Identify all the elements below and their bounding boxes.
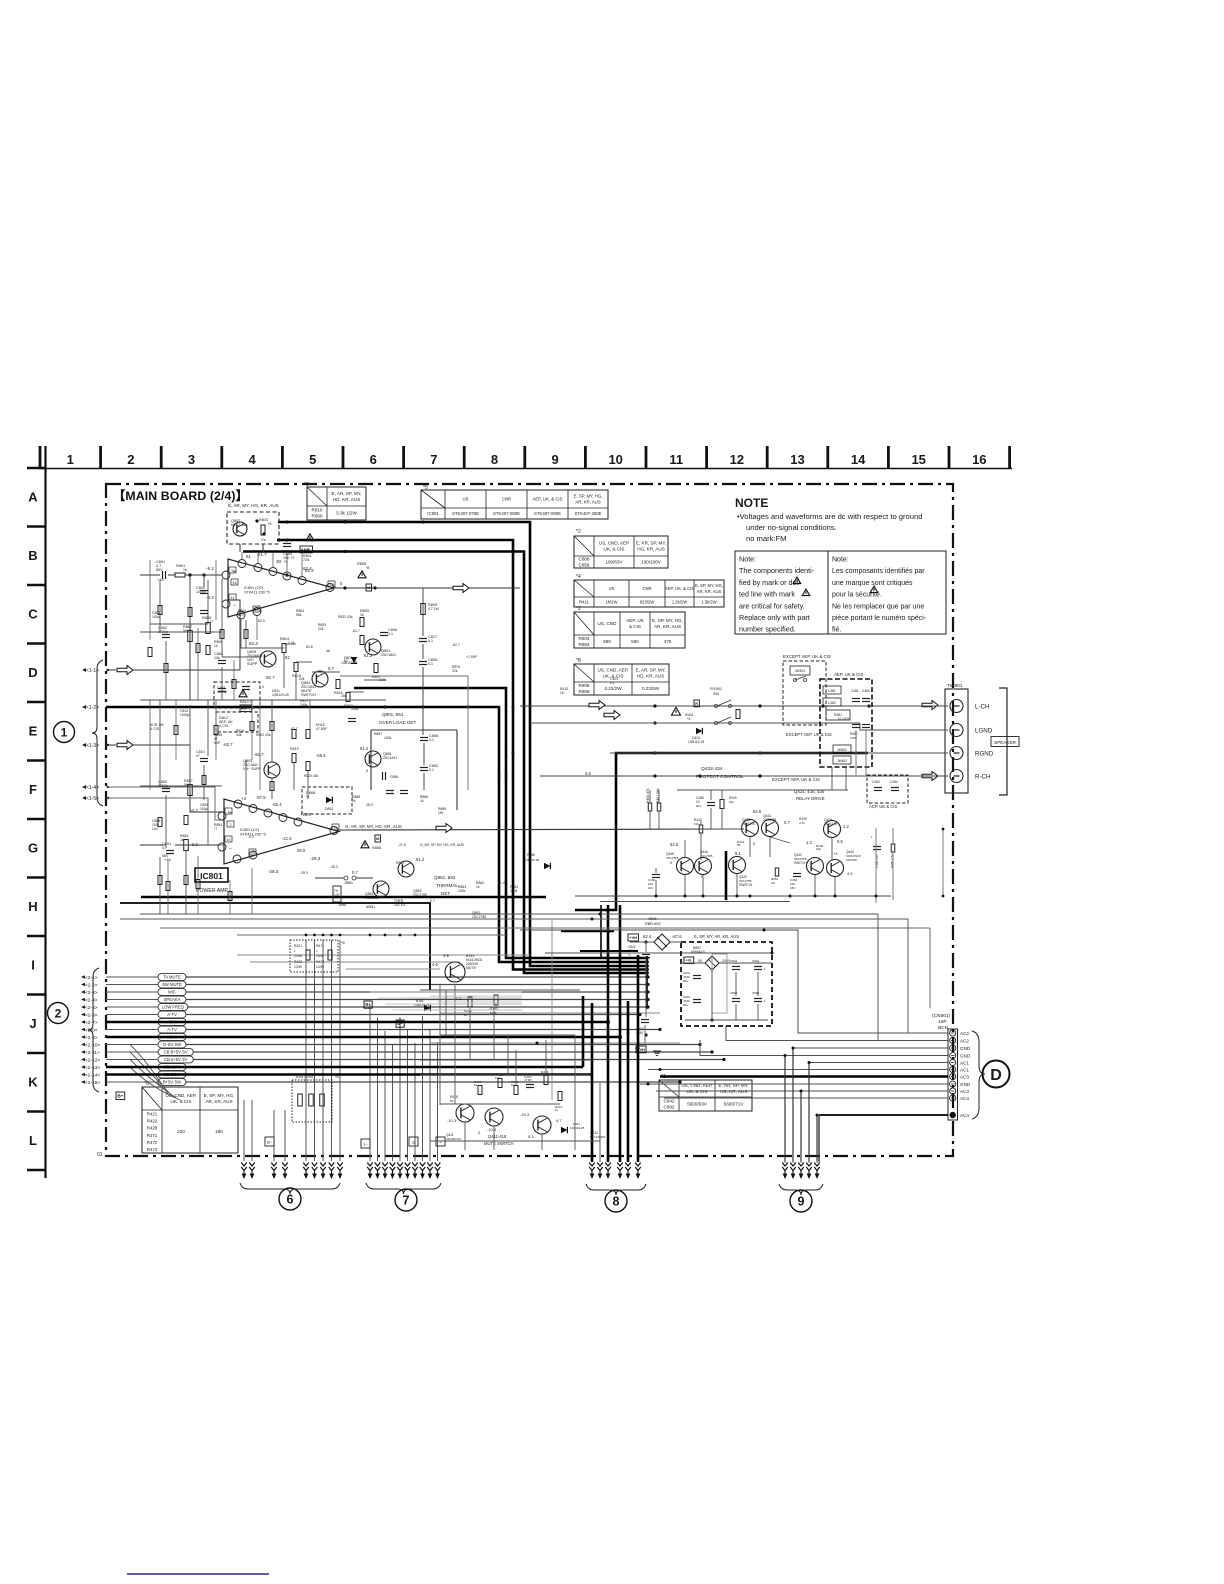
svg-text:AEP, UK, & CIS: AEP, UK, & CIS — [665, 586, 694, 591]
svg-text:2SC2785: 2SC2785 — [666, 856, 679, 860]
svg-text:*7: *7 — [210, 620, 213, 624]
svg-text:E, SP, MY, HG,: E, SP, MY, HG, — [574, 494, 603, 499]
svg-text:4B01: 4B01 — [648, 917, 657, 921]
svg-text:R-CH: R-CH — [975, 773, 990, 780]
svg-text:-21.5: -21.5 — [282, 836, 292, 841]
svg-text:R858: R858 — [527, 853, 535, 857]
svg-text:AMPL: AMPL — [241, 707, 252, 711]
svg-text:823/2W: 823/2W — [640, 599, 654, 604]
svg-text:GND: GND — [960, 1046, 971, 1051]
svg-text:L481: L481 — [828, 689, 836, 693]
svg-text:1k: 1k — [352, 799, 356, 803]
svg-text:Vs: Vs — [261, 537, 266, 542]
svg-text:EXCEPT AEP, UK & CIS: EXCEPT AEP, UK & CIS — [786, 732, 832, 737]
svg-text:100/63V: 100/63V — [605, 560, 623, 565]
svg-text:-0.2: -0.2 — [190, 808, 198, 813]
svg-text:10: 10 — [608, 452, 622, 467]
svg-text:2SC1841: 2SC1841 — [381, 653, 396, 657]
svg-text:O-SV SW: O-SV SW — [163, 1042, 181, 1047]
svg-text:& CIS: & CIS — [629, 624, 641, 629]
svg-text:-29.9: -29.9 — [721, 959, 730, 963]
svg-text:<2-10>: <2-10> — [85, 1043, 100, 1049]
svg-text:+: + — [229, 811, 232, 817]
svg-text:fié.: fié. — [832, 627, 841, 634]
svg-text:NOTE: NOTE — [735, 496, 768, 510]
svg-text:IC801: IC801 — [427, 511, 439, 516]
svg-text:100: 100 — [283, 556, 289, 560]
svg-text:59: 59 — [737, 843, 741, 847]
svg-text:STK407-250E: STK407-250E — [575, 511, 602, 516]
svg-text:Q432-434: Q432-434 — [701, 766, 723, 772]
svg-text:OVER LOAD DET: OVER LOAD DET — [379, 720, 416, 725]
svg-text:<2-3>: <2-3> — [85, 990, 98, 996]
svg-text:C844: C844 — [752, 959, 760, 963]
svg-text:*1: *1 — [636, 1035, 639, 1039]
svg-text:R808: R808 — [579, 683, 590, 688]
svg-text:A: A — [28, 490, 38, 505]
svg-text:AC2: AC2 — [960, 1031, 969, 1036]
svg-text:47: 47 — [196, 754, 200, 758]
svg-text:2SA1175: 2SA1175 — [824, 822, 837, 826]
svg-text:2.5: 2.5 — [455, 996, 461, 1001]
svg-text:62.3: 62.3 — [249, 641, 258, 646]
svg-text:14: 14 — [333, 825, 338, 830]
svg-text:62: 62 — [285, 655, 290, 660]
svg-text:12: 12 — [329, 582, 334, 587]
svg-text:Ne les remplacer que par une: Ne les remplacer que par une — [832, 603, 924, 610]
svg-text:D851: D851 — [325, 807, 333, 811]
svg-text:HG, KR, AUS: HG, KR, AUS — [720, 1089, 748, 1094]
svg-text:10: 10 — [226, 837, 231, 842]
svg-text:0.22/5W: 0.22/5W — [642, 686, 660, 691]
svg-text:726: 726 — [303, 558, 309, 562]
svg-text:16: 16 — [232, 580, 237, 585]
svg-text:【MAIN BOARD (2/4)】: 【MAIN BOARD (2/4)】 — [113, 488, 248, 503]
svg-text:E: E — [29, 724, 38, 739]
svg-text:13: 13 — [254, 607, 259, 612]
svg-text:100k: 100k — [458, 889, 466, 893]
svg-text:<2-7>: <2-7> — [85, 1020, 98, 1026]
svg-text:HG, KR, AUS: HG, KR, AUS — [333, 497, 361, 502]
svg-text:E, AR, SP, MY,: E, AR, SP, MY, — [636, 668, 666, 673]
svg-text:1: 1 — [61, 725, 68, 739]
svg-text:R453 47k: R453 47k — [646, 788, 650, 803]
svg-text:TW801: TW801 — [947, 683, 963, 689]
svg-text:0: 0 — [478, 1131, 480, 1135]
svg-text:1W: 1W — [438, 811, 444, 815]
svg-text:4A: 4A — [326, 649, 331, 653]
svg-text:1/2W: 1/2W — [316, 965, 325, 969]
svg-text:R421: R421 — [294, 944, 302, 948]
svg-text:4: 4 — [248, 452, 256, 467]
svg-text:R822 43k: R822 43k — [256, 733, 271, 737]
svg-text:JW81: JW81 — [344, 881, 353, 885]
svg-text:B+5V SW: B+5V SW — [163, 1079, 181, 1084]
svg-text:1/2W: 1/2W — [294, 954, 303, 958]
svg-text:R472: R472 — [147, 1140, 158, 1145]
svg-text:*2: *2 — [291, 556, 294, 560]
svg-text:-10.3: -10.3 — [487, 1127, 497, 1132]
svg-text:5600/71V: 5600/71V — [724, 1102, 745, 1107]
svg-text:R421: R421 — [147, 1112, 158, 1117]
svg-text:E, AR, MY, HG, KR, AUS: E, AR, MY, HG, KR, AUS — [228, 503, 279, 508]
svg-text:2SC2785: 2SC2785 — [700, 854, 713, 858]
svg-text:B: B — [28, 548, 37, 563]
svg-text:JW81: JW81 — [338, 903, 347, 907]
svg-text:R813: R813 — [240, 700, 249, 704]
svg-text:AW81: AW81 — [366, 905, 375, 909]
svg-text:US, CND: US, CND — [598, 621, 618, 626]
svg-text:<2-12>: <2-12> — [85, 1058, 100, 1064]
svg-text:102 1Ω: 102 1Ω — [394, 903, 405, 907]
svg-text:AC4: AC4 — [960, 1096, 969, 1101]
svg-text:MIC: MIC — [168, 989, 176, 994]
svg-text:CNR: CNR — [502, 497, 511, 502]
svg-text:THERMAL: THERMAL — [436, 883, 458, 888]
svg-text:GND: GND — [960, 1082, 971, 1087]
svg-text:*2: *2 — [576, 606, 581, 612]
svg-text:2SC2785: 2SC2785 — [763, 818, 777, 822]
svg-text:2SC56C5A: 2SC56C5A — [446, 1137, 461, 1141]
svg-text:NTE2-15A: NTE2-15A — [231, 523, 248, 527]
svg-text:MUTE: MUTE — [466, 966, 477, 970]
svg-text:102: 102 — [334, 893, 340, 897]
svg-text:22k: 22k — [452, 669, 458, 673]
svg-text:0.22/2W: 0.22/2W — [604, 686, 622, 691]
svg-text:13: 13 — [790, 452, 804, 467]
svg-text:21.7: 21.7 — [258, 552, 267, 557]
svg-text:0.1: 0.1 — [388, 632, 393, 636]
svg-text:<2-4>: <2-4> — [85, 998, 98, 1004]
svg-text:R: R — [695, 702, 698, 706]
svg-text:SUPP: SUPP — [247, 662, 258, 666]
svg-text:5600/63V: 5600/63V — [687, 1102, 708, 1107]
svg-text:US, CND, AEP: US, CND, AEP — [599, 541, 629, 546]
svg-text:6959A19: 6959A19 — [691, 950, 705, 954]
svg-text:JW401: JW401 — [795, 669, 806, 673]
svg-text:16: 16 — [972, 452, 986, 467]
svg-text:AC3: AC3 — [960, 1075, 969, 1080]
svg-text:CB B+5V SV: CB B+5V SV — [164, 1049, 188, 1054]
svg-text:-67.6: -67.6 — [672, 934, 682, 939]
svg-text:1SB119-25: 1SB119-25 — [688, 740, 704, 744]
svg-text:16V: 16V — [790, 886, 795, 890]
svg-text:LOW FREQ: LOW FREQ — [162, 1004, 185, 1009]
svg-text:HG, KR, AUS: HG, KR, AUS — [637, 547, 665, 552]
svg-text:E, SP, MY, AR, KR, AUS: E, SP, MY, AR, KR, AUS — [694, 934, 739, 939]
svg-text:R858: R858 — [579, 689, 590, 694]
svg-text:0.7: 0.7 — [430, 899, 435, 903]
svg-text:220: 220 — [177, 1129, 185, 1134]
svg-text:I: I — [31, 958, 35, 973]
svg-text:15: 15 — [911, 452, 925, 467]
svg-text:G, AR, SP, MY, HG, KR, AUS: G, AR, SP, MY, HG, KR, AUS — [345, 824, 402, 829]
svg-text:<2-14>: <2-14> — [85, 1073, 100, 1079]
svg-text:47 50P: 47 50P — [316, 727, 327, 731]
svg-text:STK411-230 *5: STK411-230 *5 — [244, 591, 270, 595]
svg-text:8: 8 — [613, 1195, 620, 1209]
svg-text:L-CH: L-CH — [975, 703, 989, 710]
svg-text:Q411-418: Q411-418 — [488, 1134, 507, 1139]
svg-text:1000p: 1000p — [180, 713, 190, 717]
svg-text:C483: C483 — [872, 780, 880, 784]
svg-text:4.7: 4.7 — [556, 1118, 562, 1123]
svg-text:AR, KR, AUS: AR, KR, AUS — [654, 624, 681, 629]
svg-text:−VH: −VH — [637, 1048, 645, 1052]
svg-text:C892: C892 — [664, 1105, 675, 1110]
svg-text:ACP, UK & CIS: ACP, UK & CIS — [869, 804, 898, 809]
svg-text:10k: 10k — [694, 822, 699, 826]
svg-text:+16: +16 — [157, 577, 165, 582]
svg-text:L: L — [29, 1133, 37, 1148]
svg-text:62.3: 62.3 — [258, 619, 265, 623]
svg-text:STK407-070E: STK407-070E — [452, 511, 479, 516]
svg-text:ted line with mark: ted line with mark — [739, 590, 795, 599]
svg-text:10k: 10k — [495, 1076, 500, 1080]
svg-text:4.5: 4.5 — [847, 871, 853, 876]
svg-text:Q851, 852: Q851, 852 — [434, 875, 456, 880]
svg-text:470: 470 — [664, 639, 672, 644]
svg-text:C859: C859 — [579, 563, 590, 568]
svg-text:L482: L482 — [828, 701, 836, 705]
svg-text:62.8: 62.8 — [306, 645, 313, 649]
svg-text:C842: C842 — [664, 1099, 675, 1104]
svg-text:RGND: RGND — [975, 750, 994, 757]
svg-text:100k: 100k — [384, 736, 392, 740]
svg-text:R411: R411 — [579, 599, 589, 604]
svg-text:R433 x 1/2W: R433 x 1/2W — [296, 1075, 314, 1079]
svg-text:EXCEPT AEP, UK & CIS: EXCEPT AEP, UK & CIS — [783, 654, 831, 659]
svg-text:K: K — [28, 1075, 38, 1090]
svg-text:9: 9 — [798, 1195, 805, 1209]
svg-text:C482: C482 — [862, 689, 870, 693]
svg-text:-55.4: -55.4 — [316, 753, 326, 758]
svg-text:5k: 5k — [450, 1099, 454, 1103]
svg-text:0.1: 0.1 — [429, 768, 434, 772]
svg-text:*4: *4 — [576, 574, 581, 580]
svg-text:1SB119-25: 1SB119-25 — [570, 1126, 585, 1130]
svg-text:G, AR, SP, MY, HG, KR, AUS: G, AR, SP, MY, HG, KR, AUS — [420, 843, 465, 847]
svg-text:RELAY DRIVE: RELAY DRIVE — [796, 796, 825, 801]
svg-text:-57.5: -57.5 — [256, 795, 266, 800]
svg-text:56k: 56k — [296, 613, 302, 617]
svg-text:01: 01 — [97, 1152, 103, 1158]
svg-text:4.7k: 4.7k — [799, 821, 805, 825]
svg-text:1.2: 1.2 — [843, 824, 849, 829]
svg-text:STK407-090E: STK407-090E — [534, 511, 561, 516]
svg-text:AC1: AC1 — [960, 1061, 969, 1066]
svg-text:STK407-050E: STK407-050E — [493, 511, 520, 516]
svg-text:R819: R819 — [290, 747, 299, 751]
svg-text:10k: 10k — [816, 847, 821, 851]
svg-text:1SB119-25: 1SB119-25 — [414, 1003, 430, 1007]
svg-text:0.1: 0.1 — [428, 662, 433, 666]
svg-text:<1-5>: <1-5> — [86, 796, 99, 802]
svg-text:0.8: 0.8 — [585, 771, 591, 776]
svg-text:2: 2 — [127, 452, 134, 467]
svg-text:1k: 1k — [476, 885, 480, 889]
svg-text:0.1: 0.1 — [428, 639, 433, 643]
svg-text:1.5k/2W: 1.5k/2W — [701, 599, 716, 604]
svg-text:61.2: 61.2 — [360, 746, 369, 751]
svg-text:A-TV: A-TV — [167, 1012, 177, 1017]
svg-text:-29.3: -29.3 — [310, 856, 321, 861]
svg-text:62.4: 62.4 — [643, 934, 652, 939]
svg-text:UK, & CIS: UK, & CIS — [687, 1089, 708, 1094]
svg-text:AR, KR, AUS: AR, KR, AUS — [205, 1099, 232, 1104]
svg-text:1k: 1k — [183, 568, 187, 572]
svg-text:(CN801): (CN801) — [932, 1013, 951, 1019]
svg-text:LGND: LGND — [975, 727, 993, 734]
svg-text:-19.3: -19.3 — [520, 1112, 530, 1117]
svg-text:0.6: 0.6 — [837, 839, 843, 844]
svg-text:2: 2 — [55, 1006, 62, 1020]
svg-text:UK, & CIS: UK, & CIS — [604, 547, 625, 552]
svg-text:10P: 10P — [938, 1019, 947, 1025]
svg-text:A-TV: A-TV — [167, 1027, 177, 1032]
svg-text:R422: R422 — [147, 1119, 158, 1124]
svg-text:30: 30 — [276, 559, 282, 564]
svg-text:E, SP, MY, HG,: E, SP, MY, HG, — [695, 583, 723, 588]
svg-text:<2-6>: <2-6> — [85, 1013, 98, 1019]
svg-text:22k: 22k — [729, 800, 734, 804]
svg-text:R471: R471 — [147, 1133, 158, 1138]
svg-text:PROTECT CONTROL: PROTECT CONTROL — [696, 774, 744, 780]
svg-text:*4: *4 — [687, 717, 690, 721]
svg-text:-0.2: -0.2 — [248, 835, 254, 839]
svg-text:CNR: CNR — [642, 586, 651, 591]
svg-text:& CIS: & CIS — [219, 724, 229, 728]
svg-text:*8: *8 — [576, 658, 581, 664]
svg-text:-29.3: -29.3 — [300, 871, 308, 875]
svg-text:47 8P: 47 8P — [524, 1078, 532, 1082]
svg-text:une marque sont critiques: une marque sont critiques — [832, 580, 913, 587]
svg-text:-9.2: -9.2 — [206, 566, 214, 571]
svg-text:R+: R+ — [365, 1002, 371, 1007]
svg-text:number specified.: number specified. — [739, 625, 796, 634]
svg-text:R860: R860 — [312, 514, 323, 519]
svg-text:MUTE SWITCH: MUTE SWITCH — [484, 1141, 514, 1146]
svg-text:AEP, UK, & CIS: AEP, UK, & CIS — [532, 497, 562, 502]
svg-text:5.3: 5.3 — [528, 1134, 534, 1139]
svg-text:*8: *8 — [366, 566, 369, 570]
svg-text:-29.3: -29.3 — [268, 869, 279, 874]
svg-text:J: J — [29, 1016, 36, 1031]
svg-text:JW403: JW403 — [837, 759, 847, 763]
svg-text:US, CND, AEP,: US, CND, AEP, — [597, 668, 628, 673]
svg-text:*8: *8 — [268, 522, 271, 526]
svg-text:12: 12 — [730, 452, 744, 467]
svg-text:F: F — [29, 782, 37, 797]
svg-text:4.7 1W: 4.7 1W — [428, 607, 440, 611]
svg-text:GND: GND — [960, 1054, 971, 1059]
svg-text:+3: +3 — [833, 852, 837, 856]
svg-text:under no-signal conditions.: under no-signal conditions. — [746, 523, 837, 532]
svg-text:−: − — [233, 603, 236, 609]
svg-text:-62.7: -62.7 — [452, 643, 460, 647]
svg-text:B1C1SM63: B1C1SM63 — [590, 1135, 606, 1139]
svg-text:R808: R808 — [357, 562, 366, 566]
svg-text:SWITCH: SWITCH — [301, 693, 316, 697]
svg-text:+: + — [233, 570, 236, 576]
svg-text:BCN: BCN — [938, 1025, 949, 1031]
svg-text:470: 470 — [238, 613, 244, 617]
svg-text:*2: *2 — [576, 529, 581, 535]
svg-text:DET: DET — [441, 891, 450, 896]
svg-text:The components identi-: The components identi- — [739, 566, 815, 575]
svg-text:•Voltages and waveforms are dc: •Voltages and waveforms are dc with resp… — [737, 512, 922, 521]
svg-text:8: 8 — [491, 452, 498, 467]
svg-text:G: G — [28, 841, 38, 856]
svg-text:are critical for safety.: are critical for safety. — [739, 601, 805, 610]
svg-text:7: 7 — [430, 452, 437, 467]
svg-text:-21.5: -21.5 — [398, 843, 406, 847]
svg-text:AR, KR, AUS: AR, KR, AUS — [697, 589, 722, 594]
svg-text:100k: 100k — [490, 1011, 497, 1015]
svg-text:50V: 50V — [683, 979, 688, 983]
svg-text:E, SP, MY, HG,: E, SP, MY, HG, — [204, 1093, 235, 1098]
svg-text:JW402: JW402 — [837, 748, 847, 752]
svg-text:2SC2785: 2SC2785 — [413, 893, 427, 897]
svg-text:0: 0 — [366, 769, 368, 773]
svg-text:2SC1841: 2SC1841 — [365, 896, 379, 900]
svg-text:43k: 43k — [236, 733, 242, 737]
svg-text:1k: 1k — [420, 799, 424, 803]
svg-text:CB 6+5V 3V: CB 6+5V 3V — [164, 1057, 187, 1062]
svg-text:1.2k/2W: 1.2k/2W — [672, 599, 687, 604]
svg-text:C: C — [28, 607, 38, 622]
svg-text:SWITCH: SWITCH — [739, 883, 753, 887]
svg-text:<1-2>: <1-2> — [86, 705, 99, 711]
svg-text:180: 180 — [215, 1129, 223, 1134]
svg-text:*7: *7 — [214, 827, 217, 831]
svg-text:1k: 1k — [180, 838, 184, 842]
svg-text:-62.4: -62.4 — [272, 802, 282, 807]
svg-text:2SA1175: 2SA1175 — [742, 822, 755, 826]
svg-text:C484: C484 — [890, 780, 898, 784]
svg-text:C856: C856 — [390, 775, 398, 779]
svg-text:UK, & CIS: UK, & CIS — [171, 1099, 192, 1104]
svg-text:D: D — [28, 665, 37, 680]
svg-text:Δ: Δ — [412, 1140, 415, 1145]
svg-text:R810: R810 — [259, 518, 268, 522]
svg-text:C843: C843 — [730, 959, 738, 963]
svg-text:+2: +2 — [241, 796, 247, 801]
svg-text:50V: 50V — [683, 1003, 688, 1007]
svg-text:B−: B− — [267, 1140, 273, 1145]
svg-text:R861: R861 — [396, 861, 404, 865]
svg-text:100k: 100k — [300, 703, 308, 707]
svg-text:R472: R472 — [316, 960, 324, 964]
svg-text:AC3: AC3 — [960, 1089, 969, 1094]
svg-text:62.5: 62.5 — [753, 809, 762, 814]
svg-text:1−: 1− — [363, 1142, 368, 1147]
svg-text:1k: 1k — [214, 644, 218, 648]
svg-text:61.2: 61.2 — [364, 653, 373, 658]
svg-text:<1-1>: <1-1> — [86, 668, 99, 674]
svg-text:AC1: AC1 — [960, 1068, 969, 1073]
svg-text:2SC2785: 2SC2785 — [472, 915, 486, 919]
svg-text:<2-5>: <2-5> — [85, 1005, 98, 1011]
svg-text:560: 560 — [631, 639, 639, 644]
svg-text:1/2W: 1/2W — [294, 965, 303, 969]
svg-text:10V: 10V — [648, 886, 653, 890]
svg-text:R853: R853 — [579, 642, 590, 647]
svg-text:1k: 1k — [464, 1013, 468, 1017]
svg-text:1k/2W: 1k/2W — [606, 599, 618, 604]
svg-text:9: 9 — [551, 452, 558, 467]
svg-text:B−: B− — [397, 1021, 403, 1026]
